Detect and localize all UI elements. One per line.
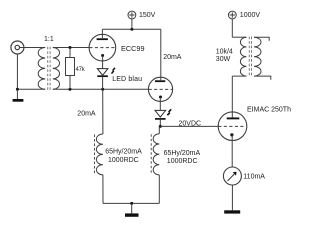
wire connector to T1 primary top (20, 47, 46, 49)
svg-text:65Hy/20mA: 65Hy/20mA (105, 149, 142, 156)
transformer T2 primary bottom lead (232, 75, 246, 77)
resistor R1 47k (66, 48, 75, 90)
power source +150V (128, 11, 136, 29)
ground (left) (13, 89, 24, 101)
tube V3 EIMAC 250Th (218, 112, 247, 141)
transformer T1 core (48, 47, 50, 90)
choke L2 stem bottom (158, 175, 160, 204)
wire LED D2 to node 20VDC (159, 119, 161, 127)
svg-text:ECC99: ECC99 (121, 44, 145, 53)
cathode dot V2 (159, 96, 162, 99)
meter M1 110mA (223, 167, 241, 185)
wire LED D1 to node A (102, 76, 104, 89)
svg-text:110mA: 110mA (243, 174, 265, 181)
LED D2 light arrows (167, 109, 172, 116)
choke L2 core (150, 134, 152, 174)
choke L1 stem top (102, 89, 104, 134)
node junction at connector ground (16, 88, 19, 91)
svg-text:150V: 150V (139, 12, 156, 19)
grid dashed V2 (149, 88, 173, 90)
wire rail down to anode V2 (160, 29, 162, 77)
choke L2 stem top (158, 126, 160, 133)
node junction 47k bottom (69, 88, 72, 91)
wire anode V1 up to +150V rail (101, 29, 103, 39)
svg-text:1000RDC: 1000RDC (167, 158, 198, 165)
transformer T1 primary winding (38, 48, 45, 90)
tube V1 ECC99 triode a (89, 34, 116, 61)
wire T1 secondary bottom rail (53, 88, 149, 90)
svg-text:65Hy/20mA: 65Hy/20mA (164, 150, 201, 157)
choke L1 stem bottom (102, 175, 104, 204)
grid dashed V1 (89, 47, 115, 49)
ground (center) (125, 203, 139, 216)
transformer T2 primary top lead (232, 36, 246, 38)
power source +1000V (228, 11, 236, 37)
LED D1 blau (97, 69, 108, 77)
wire meter to ground (231, 185, 233, 210)
anode plate bar V1 (97, 38, 108, 40)
svg-text:1:1: 1:1 (44, 36, 54, 43)
svg-text:20mA: 20mA (77, 110, 96, 117)
cathode dot V1 (101, 54, 104, 57)
anode plate bar V2 (155, 80, 165, 82)
wire bottom rail (103, 202, 159, 204)
wire T2 secondary top terminal (254, 37, 269, 41)
transformer T1 secondary winding (53, 48, 60, 90)
anode plate bar V3 (227, 117, 240, 119)
wire cathode V3 to meter (231, 135, 233, 167)
anode lead V2 (160, 77, 162, 81)
node junction 47k top (69, 46, 72, 49)
wire T2 secondary bottom terminal (254, 76, 271, 80)
input connector J1 (11, 41, 24, 54)
svg-text:47k: 47k (76, 67, 86, 73)
choke L1 core (94, 135, 96, 175)
transformer T2 core (249, 37, 251, 77)
LED D1 light arrows (111, 67, 116, 74)
wire T1 secondary top to grid V1 (53, 47, 90, 49)
wire cathode V2 to LED D2 (159, 97, 161, 110)
ground (right) (224, 210, 240, 213)
svg-text:LED blau: LED blau (112, 76, 142, 83)
tube V2 ECC99 triode b (148, 77, 172, 101)
node junction 150V feed (130, 28, 133, 31)
transformer T2 primary winding (240, 37, 246, 76)
cathode dot V3 (230, 133, 233, 136)
svg-text:20mA: 20mA (163, 54, 182, 61)
svg-text:EIMAC 250Th: EIMAC 250Th (247, 107, 291, 114)
grid dashed V3 (218, 125, 244, 127)
svg-text:10k/4: 10k/4 (216, 49, 233, 56)
svg-text:30W: 30W (216, 56, 231, 63)
wire T1 primary bottom (17, 88, 45, 90)
choke L1 winding (96, 134, 102, 175)
LED D2 (155, 110, 166, 119)
wire 20VDC to grid V3 (160, 125, 218, 127)
svg-text:1000RDC: 1000RDC (108, 157, 139, 164)
svg-text:1000V: 1000V (240, 12, 261, 19)
wire connector down (16, 54, 18, 89)
wire T2 primary to anode V3 (231, 76, 233, 118)
transformer T2 secondary winding (254, 37, 261, 76)
choke L2 winding (153, 134, 159, 175)
node 20VDC junction (159, 125, 162, 128)
node junction center ground (130, 202, 133, 205)
wire cathode V1 to LED D1 (102, 56, 104, 69)
node A (cathode V1 / grid V2) (101, 88, 104, 91)
wire +150V rail (102, 28, 160, 30)
